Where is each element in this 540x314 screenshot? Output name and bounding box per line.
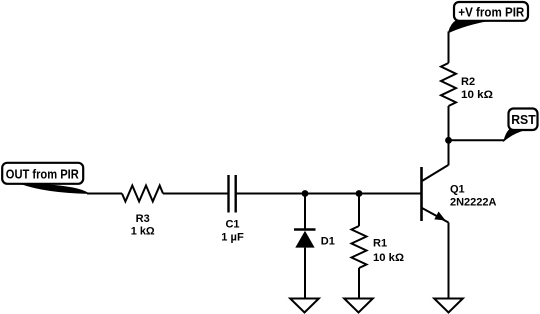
wire — [359, 193, 421, 195]
wire — [448, 223, 450, 299]
label R1 value 10 kOhm — [373, 238, 404, 264]
wire — [236, 193, 305, 195]
label R2 value 10 kOhm — [461, 76, 493, 101]
label C1 value 1 uF — [221, 219, 244, 244]
svg-text:1 kΩ: 1 kΩ — [131, 225, 155, 237]
label Q1 value 2N2222A — [450, 183, 497, 208]
resistor R1 — [352, 226, 367, 268]
svg-text:1 µF: 1 µF — [221, 232, 244, 244]
node OUT from PIR — [2, 163, 88, 194]
node +V from PIR — [449, 2, 529, 33]
node RST — [504, 109, 538, 141]
ground — [290, 299, 319, 313]
svg-text:D1: D1 — [321, 236, 335, 248]
svg-text:R2: R2 — [461, 76, 475, 88]
svg-text:R3: R3 — [136, 213, 150, 225]
wire — [448, 106, 450, 140]
wire — [448, 32, 450, 64]
wire — [304, 248, 306, 299]
junction node B — [356, 190, 363, 197]
ground — [344, 299, 373, 313]
wire — [163, 193, 229, 195]
wire — [358, 268, 360, 299]
junction node RST — [445, 137, 452, 144]
junction node A — [302, 190, 309, 197]
svg-text:10 kΩ: 10 kΩ — [461, 89, 493, 101]
resistor R3 — [122, 186, 163, 202]
wire — [448, 140, 450, 165]
wire — [305, 193, 359, 195]
capacitor C1 — [229, 175, 236, 213]
svg-text:C1: C1 — [225, 219, 239, 231]
transistor Q1 — [422, 165, 449, 223]
ground — [434, 299, 463, 313]
wire — [449, 139, 505, 141]
svg-text:RST: RST — [511, 112, 536, 127]
wire — [304, 194, 306, 230]
wire — [87, 193, 122, 195]
svg-text:R1: R1 — [373, 238, 387, 250]
svg-text:OUT from PIR: OUT from PIR — [6, 167, 80, 182]
diode D1 — [294, 230, 316, 248]
svg-text:10 kΩ: 10 kΩ — [373, 252, 404, 264]
svg-text:2N2222A: 2N2222A — [450, 196, 497, 208]
resistor R2 — [441, 63, 456, 106]
svg-text:Q1: Q1 — [450, 183, 465, 195]
label R3 value 1 kOhm — [131, 213, 155, 238]
svg-text:+V from PIR: +V from PIR — [458, 4, 525, 19]
wire — [358, 194, 360, 227]
